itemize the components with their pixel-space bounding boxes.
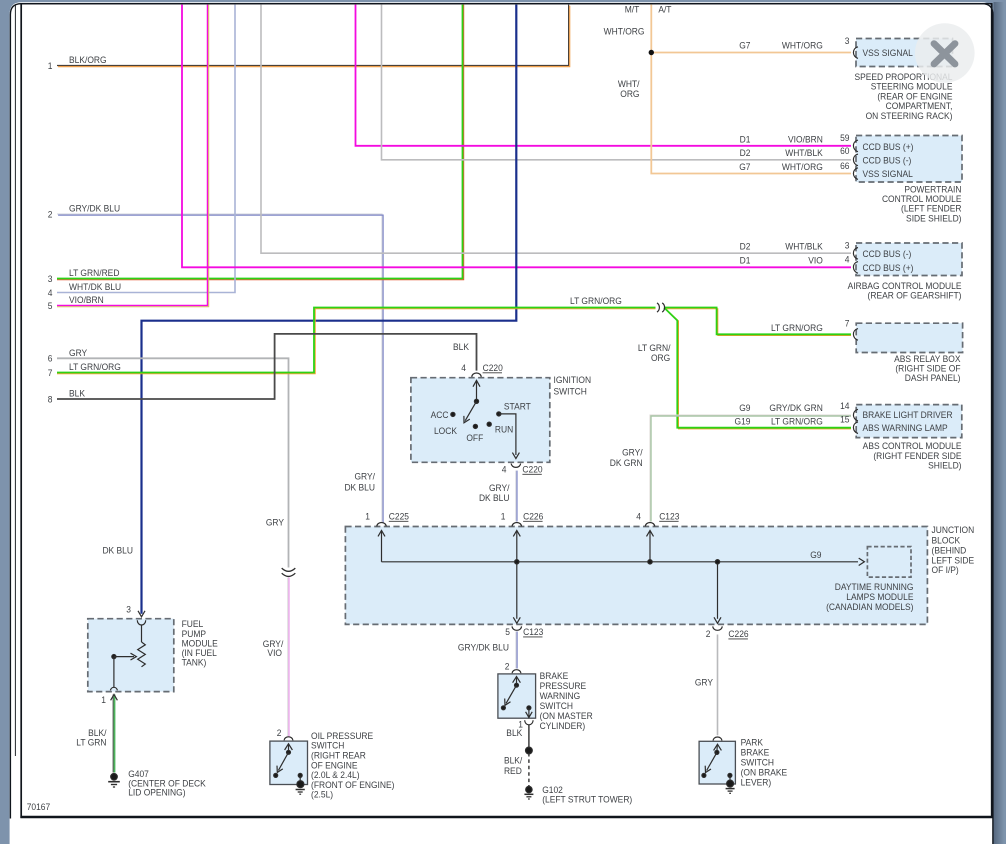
svg-text:(CANADIAN MODELS): (CANADIAN MODELS): [826, 602, 913, 613]
svg-text:SWITCH: SWITCH: [540, 701, 573, 712]
svg-text:CCD BUS (-): CCD BUS (-): [863, 155, 912, 166]
wire GRY/DK BLU C220 to C226: [516, 471, 517, 522]
junction dot WHT/ORG: [649, 50, 654, 55]
svg-text:OF I/P): OF I/P): [932, 565, 959, 576]
svg-text:ORG: ORG: [620, 89, 639, 100]
brake switch top dot: [515, 683, 519, 687]
svg-text:C123: C123: [523, 627, 543, 638]
junction block C123-4 entry line: [649, 531, 651, 562]
svg-text:66: 66: [840, 160, 849, 171]
junction dot C123: [648, 560, 652, 564]
ground at oil switch: [296, 781, 305, 795]
module connector arc airbag pin3: [853, 248, 858, 260]
connector C123-4 arc: [645, 523, 654, 527]
svg-text:GRY/: GRY/: [622, 447, 643, 458]
svg-text:C123: C123: [659, 511, 679, 522]
svg-text:ON STEERING RACK): ON STEERING RACK): [866, 110, 953, 121]
wire DK BLU to fuel pump: [142, 5, 517, 614]
module ignition switch: [411, 378, 550, 463]
svg-text:1: 1: [365, 511, 370, 522]
wire VIO/BRN to PCM pin59: [356, 5, 852, 146]
connector C220 top arrow: [473, 380, 480, 386]
park switch arm: [707, 752, 717, 770]
svg-text:5: 5: [505, 627, 510, 638]
page stack edge line: [14, 6, 16, 757]
svg-text:2: 2: [277, 727, 282, 738]
wire GRY C226-2 to park brake switch: [717, 635, 719, 736]
svg-text:59: 59: [840, 133, 849, 144]
svg-text:GRY: GRY: [695, 677, 713, 688]
svg-text:DAYTIME RUNNING: DAYTIME RUNNING: [835, 582, 914, 593]
svg-text:M/T: M/T: [625, 4, 640, 15]
ignition switch arm with arrowhead: [465, 401, 476, 420]
svg-text:A/T: A/T: [658, 4, 672, 15]
svg-text:2: 2: [706, 629, 711, 640]
fuel pump exit arc: [110, 687, 117, 690]
wire row6 GRY: [57, 358, 289, 567]
park switch left dot: [702, 773, 706, 777]
svg-text:LOCK: LOCK: [434, 425, 457, 436]
wire WHT/ORG vertical + to PCM pin66: [651, 5, 851, 174]
svg-text:(ON MASTER: (ON MASTER: [540, 711, 594, 722]
fuel pump entry cup arc: [137, 620, 145, 625]
module connector arc airbag pin4: [853, 262, 858, 274]
ignition RUN dot: [487, 422, 491, 426]
svg-text:BRAKE: BRAKE: [741, 747, 770, 758]
park switch ground stub: [729, 775, 731, 781]
ground G102: [524, 786, 533, 799]
svg-text:C226: C226: [728, 629, 748, 640]
module VSS SIGNAL (speed proportional steering): [856, 39, 953, 67]
svg-text:LT GRN/ORG: LT GRN/ORG: [69, 362, 121, 373]
wire BLK/RED dashed to G102: [528, 753, 530, 786]
svg-text:SWITCH: SWITCH: [741, 757, 774, 768]
svg-text:CCD BUS (-): CCD BUS (-): [863, 248, 912, 259]
svg-text:C220: C220: [522, 464, 542, 475]
svg-text:ABS WARNING LAMP: ABS WARNING LAMP: [863, 422, 948, 433]
svg-text:GRY/DK BLU: GRY/DK BLU: [69, 203, 120, 214]
svg-text:G19: G19: [735, 416, 751, 427]
svg-text:DK BLU: DK BLU: [479, 492, 510, 503]
svg-text:VIO: VIO: [808, 255, 823, 266]
svg-text:1: 1: [48, 60, 53, 71]
module fuel pump module: [88, 619, 174, 692]
connector C225 arc: [377, 523, 386, 527]
svg-text:BLK: BLK: [453, 341, 469, 352]
svg-text:70167: 70167: [27, 802, 51, 813]
wire row2 GRY/DK BLU: [57, 214, 383, 523]
ignition output down arrow: [512, 453, 519, 459]
svg-text:WHT/ORG: WHT/ORG: [782, 40, 823, 51]
svg-text:15: 15: [840, 414, 849, 425]
splice arcs on LT GRN/ORG: [657, 303, 659, 312]
svg-text:LAMPS MODULE: LAMPS MODULE: [846, 592, 913, 603]
wire GRY/DK GRN ABS pin14 to C123-4: [650, 415, 851, 522]
svg-text:4: 4: [845, 254, 850, 265]
connector C226-2 arc: [713, 626, 722, 630]
wire row7 LT GRN/ORG to splice: [57, 308, 656, 374]
brake switch exit arc: [525, 720, 533, 724]
svg-text:1: 1: [101, 694, 106, 705]
wire LT GRN/ORG splice to ABS relay box pin7: [664, 308, 851, 336]
svg-text:WHT/ORG: WHT/ORG: [604, 26, 645, 37]
junction block C226-2 exit arrow: [714, 617, 721, 623]
junction block C225 entry line: [381, 531, 383, 562]
svg-text:(2.5L): (2.5L): [311, 789, 333, 800]
svg-text:LT GRN/ORG: LT GRN/ORG: [771, 416, 823, 427]
svg-text:LT GRN: LT GRN: [76, 737, 106, 748]
module ABS relay box: [856, 323, 962, 352]
wire WHT/ORG branch to VSS pin3: [651, 52, 851, 54]
oil switch feed line: [288, 744, 290, 752]
switch box oil pressure switch: [270, 741, 308, 784]
junction dot C226: [515, 560, 519, 564]
oil switch ground stub: [299, 775, 301, 782]
ignition switch feed line: [476, 381, 478, 401]
wire BLK brake pressure switch pin1: [528, 725, 530, 749]
svg-text:OFF: OFF: [466, 432, 483, 443]
fuel pump inner feed line: [141, 625, 143, 642]
svg-text:RUN: RUN: [495, 424, 513, 435]
brake switch left dot: [501, 706, 505, 710]
svg-text:SIDE SHIELD): SIDE SHIELD): [906, 213, 961, 224]
svg-text:4: 4: [48, 287, 53, 298]
junction block C123-5 exit arrow: [513, 617, 520, 623]
svg-text:BLOCK: BLOCK: [932, 535, 961, 546]
svg-text:VIO/BRN: VIO/BRN: [788, 134, 823, 145]
wire GRY/DK BLU C123-5 to brake pressure switch: [516, 632, 517, 669]
wire row8 BLK to ignition C220: [57, 334, 477, 399]
svg-text:GRY/DK BLU: GRY/DK BLU: [458, 642, 509, 653]
svg-text:CYLINDER): CYLINDER): [540, 721, 586, 732]
svg-text:START: START: [504, 401, 531, 412]
ignition START dot: [497, 412, 501, 416]
fuel pump exit up arrow: [111, 694, 118, 700]
svg-text:BRAKE: BRAKE: [540, 671, 569, 682]
wire row5 VIO/BRN: [57, 5, 209, 307]
oil switch left dot: [274, 773, 278, 777]
junction block DRL arrow: [859, 558, 865, 565]
module connector arc VSS pin3: [853, 47, 858, 59]
svg-text:WARNING: WARNING: [540, 691, 581, 702]
svg-text:4: 4: [461, 363, 466, 374]
module airbag control module: [856, 243, 962, 276]
wire LT GRN/ORG splice to ABS warning lamp pin15: [664, 308, 851, 429]
svg-text:BLK: BLK: [506, 728, 522, 739]
connector C220 top arc: [472, 373, 481, 377]
module connector arc PCM pin66: [853, 168, 858, 180]
svg-text:WHT/ORG: WHT/ORG: [782, 162, 823, 173]
svg-text:BLK: BLK: [69, 388, 85, 399]
svg-text:JUNCTION: JUNCTION: [932, 525, 975, 536]
svg-text:LID OPENING): LID OPENING): [128, 787, 185, 798]
svg-text:VIO: VIO: [267, 648, 282, 659]
svg-text:3: 3: [845, 36, 850, 47]
svg-text:GRY/DK GRN: GRY/DK GRN: [769, 403, 822, 414]
svg-text:DK BLU: DK BLU: [102, 545, 133, 556]
svg-text:LT GRN/ORG: LT GRN/ORG: [771, 323, 823, 334]
svg-text:DASH PANEL): DASH PANEL): [905, 373, 961, 384]
oil switch top dot: [287, 750, 291, 754]
svg-text:PRESSURE: PRESSURE: [540, 681, 587, 692]
ignition START output line: [499, 414, 516, 455]
svg-text:GRY: GRY: [266, 517, 284, 528]
svg-text:G7: G7: [739, 40, 750, 51]
svg-text:4: 4: [502, 464, 507, 475]
brake switch right dot: [527, 706, 531, 710]
junction block C226-2 branch line: [717, 562, 719, 619]
module daytime running lamps module connector: [867, 547, 911, 578]
connector C226-1 arc: [512, 523, 521, 527]
svg-text:CCD BUS (+): CCD BUS (+): [863, 141, 914, 152]
splice dot BLK/RED: [526, 747, 533, 754]
svg-text:D1: D1: [740, 134, 751, 145]
svg-text:D2: D2: [740, 148, 751, 159]
svg-text:ORG: ORG: [651, 352, 670, 363]
oil switch entry arrow: [285, 744, 293, 750]
svg-text:RED: RED: [504, 766, 522, 777]
oil switch arm: [278, 752, 288, 770]
switch box brake pressure warning switch: [498, 674, 536, 718]
svg-text:2: 2: [505, 661, 510, 672]
junction block C123-4 entry arrow: [647, 530, 654, 536]
oil switch entry arc: [284, 737, 293, 741]
svg-text:C220: C220: [483, 363, 503, 374]
ignition pivot dot: [474, 399, 478, 403]
brake switch entry arc: [512, 670, 521, 674]
module connector arc ABS pin15: [853, 422, 858, 434]
brake switch exit down arrow: [526, 712, 533, 718]
svg-text:VIO/BRN: VIO/BRN: [69, 295, 104, 306]
junction block C225 entry arrow: [378, 530, 385, 536]
svg-text:3: 3: [845, 240, 850, 251]
svg-text:ACC: ACC: [431, 409, 449, 420]
svg-text:LEVER): LEVER): [741, 777, 772, 788]
park switch feed line: [716, 745, 718, 753]
ground at park switch: [726, 780, 735, 793]
brake switch arm: [506, 685, 516, 703]
svg-text:WHT/BLK: WHT/BLK: [785, 241, 823, 252]
svg-text:DK GRN: DK GRN: [610, 457, 643, 468]
brake switch output line: [528, 708, 530, 717]
connector C220 bottom arc: [511, 464, 520, 468]
park switch top dot: [715, 750, 719, 754]
fuel pump resistor: [138, 642, 146, 667]
module junction block: [345, 527, 927, 625]
svg-text:D1: D1: [740, 255, 751, 266]
svg-text:TANK): TANK): [182, 657, 207, 668]
fuel pump ground branch line: [113, 657, 115, 688]
ground G407: [108, 774, 120, 788]
svg-text:WHT/BLK: WHT/BLK: [785, 148, 823, 159]
svg-text:(LEFT STRUT TOWER): (LEFT STRUT TOWER): [542, 794, 632, 805]
svg-text:BLK/: BLK/: [504, 755, 523, 766]
module connector arc ABS pin14: [853, 409, 858, 421]
wire WHT/BLK to airbag CCD BUS (-): [261, 5, 851, 254]
module connector arc PCM pin59: [853, 140, 858, 152]
svg-text:VSS SIGNAL: VSS SIGNAL: [863, 169, 913, 180]
park switch right dot: [728, 773, 732, 777]
oil switch right dot: [298, 773, 302, 777]
wire GRY/VIO to oil pressure switch: [288, 578, 289, 737]
wire VIO to airbag CCD BUS (+): [182, 5, 851, 268]
fuel pump wiper arrow: [131, 653, 137, 660]
module powertrain control module: [856, 136, 962, 183]
svg-text:7: 7: [845, 318, 850, 329]
svg-text:BLK/ORG: BLK/ORG: [69, 55, 107, 66]
svg-text:60: 60: [840, 146, 849, 157]
svg-text:14: 14: [840, 400, 849, 411]
svg-text:3: 3: [126, 604, 131, 615]
svg-text:C226: C226: [523, 511, 543, 522]
ignition OFF dot: [473, 424, 477, 428]
wire row1 BLK/ORG: [57, 5, 570, 67]
svg-text:5: 5: [48, 300, 53, 311]
junction block C226 entry arrow: [513, 530, 520, 536]
svg-text:3: 3: [48, 273, 53, 284]
svg-text:6: 6: [48, 353, 53, 364]
junction block C226/C123-5 line: [516, 531, 518, 619]
svg-text:G7: G7: [739, 162, 750, 173]
fuel pump wiper line: [114, 656, 134, 658]
inline connector break on GRY wire: [282, 568, 296, 571]
svg-text:CCD BUS (+): CCD BUS (+): [863, 262, 914, 273]
svg-text:BRAKE LIGHT DRIVER: BRAKE LIGHT DRIVER: [863, 410, 954, 421]
brake switch feed line: [516, 677, 518, 685]
module ABS control module: [856, 405, 962, 438]
svg-text:VSS SIGNAL: VSS SIGNAL: [863, 48, 913, 59]
svg-text:4: 4: [636, 511, 641, 522]
svg-text:7: 7: [48, 367, 53, 378]
ignition ACC dot: [451, 412, 455, 416]
park switch entry arrow: [714, 744, 722, 750]
brake switch entry arrow: [513, 677, 521, 683]
wire row3 LT GRN/RED: [57, 5, 464, 280]
module connector arc PCM pin60: [853, 154, 858, 166]
svg-text:WHT/: WHT/: [618, 79, 640, 90]
svg-text:SHIELD): SHIELD): [928, 460, 961, 471]
svg-text:SWITCH: SWITCH: [554, 386, 587, 397]
svg-text:IGNITION: IGNITION: [554, 375, 592, 386]
close button: [915, 23, 975, 83]
fuel pump wiper dot: [112, 655, 116, 659]
wire row4 WHT/DK BLU: [57, 5, 235, 293]
svg-text:GRY/: GRY/: [354, 471, 375, 482]
svg-text:G9: G9: [739, 403, 750, 414]
svg-text:G9: G9: [810, 549, 821, 560]
wire WHT/BLK to PCM pin60: [382, 5, 852, 160]
svg-text:C225: C225: [389, 511, 409, 522]
module connector arc ABS relay pin7: [853, 329, 858, 341]
switch box park brake switch: [699, 741, 735, 784]
junction dot C226-2: [715, 560, 719, 564]
svg-text:LT GRN/RED: LT GRN/RED: [69, 268, 120, 279]
svg-text:GRY: GRY: [69, 347, 87, 358]
svg-text:WHT/DK BLU: WHT/DK BLU: [69, 282, 121, 293]
park switch entry arc: [713, 737, 722, 741]
fuel pump feed down arrow: [138, 611, 145, 617]
svg-text:D2: D2: [740, 241, 751, 252]
wire BLK/LT GRN fuel pump to G407: [113, 695, 114, 773]
junction block bus line to DRL module: [382, 561, 859, 563]
svg-text:8: 8: [48, 394, 53, 405]
svg-text:1: 1: [501, 511, 506, 522]
svg-text:2: 2: [48, 209, 53, 220]
svg-text:LT GRN/ORG: LT GRN/ORG: [570, 295, 622, 306]
svg-text:(REAR OF GEARSHIFT): (REAR OF GEARSHIFT): [868, 290, 962, 301]
svg-text:DK BLU: DK BLU: [344, 482, 375, 493]
connector C123-5 arc: [512, 626, 521, 630]
